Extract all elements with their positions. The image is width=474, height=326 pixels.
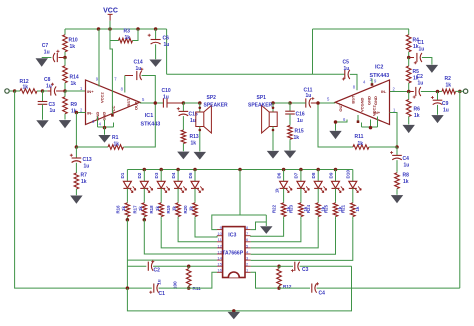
capacitor C2 top: [409, 91, 414, 93]
wire R18 to IC3 pin12: [161, 220, 217, 248]
capacitor C3: [42, 91, 44, 102]
svg-text:C7: C7: [42, 43, 49, 49]
svg-text:C4: C4: [319, 291, 326, 297]
svg-text:1k: 1k: [275, 188, 280, 193]
ground R8: [391, 195, 402, 202]
svg-text:VCGND: VCGND: [360, 97, 365, 112]
wire R11 to output riser: [318, 103, 352, 147]
LED D3: [160, 170, 162, 182]
svg-text:GND: GND: [102, 112, 107, 121]
svg-text:R3: R3: [124, 29, 131, 35]
resistor R1: [76, 146, 107, 148]
svg-text:D6: D6: [276, 172, 281, 178]
IC3 pin 4: [245, 253, 251, 255]
wire IC3 pin9 up: [212, 215, 266, 230]
wire IC1 gnd stem: [104, 127, 106, 135]
wire feedback vertical: [75, 113, 77, 148]
wire C3 to bottom loop: [300, 265, 352, 267]
speaker SP1: [272, 103, 274, 112]
svg-text:R6: R6: [414, 106, 421, 112]
node junction SP2 top: [198, 101, 202, 105]
wire rail to meter drop: [239, 170, 241, 216]
svg-text:R20: R20: [183, 205, 188, 214]
svg-text:SP2: SP2: [207, 95, 217, 101]
node junction rail pin9 tap: [97, 27, 101, 31]
svg-text:1k: 1k: [191, 141, 197, 147]
node junction rail meter tap: [238, 168, 242, 172]
wire IC2 pin9 stub: [371, 79, 373, 85]
wire VCC top rail right: [313, 28, 410, 30]
wire to speaker SP2: [183, 102, 199, 104]
svg-text:D10: D10: [346, 170, 351, 179]
wire C2 line left: [127, 265, 146, 267]
svg-text:1k: 1k: [23, 84, 29, 90]
svg-text:IN-: IN-: [381, 89, 387, 94]
resistor R14: [64, 58, 66, 66]
node junction output C14 R1: [154, 101, 158, 105]
wire R23 to IC3 pin6: [251, 220, 301, 242]
IC3 pin 15: [217, 265, 223, 267]
svg-text:1u: 1u: [163, 94, 169, 100]
node junction C15 tap: [182, 101, 186, 105]
svg-text:VCC2: VCC2: [99, 92, 104, 103]
svg-text:R23: R23: [289, 204, 294, 213]
wire R20 to IC3 pin10: [195, 220, 217, 237]
resistor R17: [143, 202, 145, 203]
resistor R12: [15, 90, 20, 92]
ground R6: [403, 125, 414, 132]
wire IC1 pin2 to feedback: [76, 112, 85, 114]
wire R25 to IC3 pin4: [251, 220, 336, 255]
svg-text:1k: 1k: [414, 113, 420, 119]
wire C2 to R11 pin15: [153, 265, 217, 267]
node junction C16 tap: [288, 101, 292, 105]
svg-text:1u: 1u: [157, 279, 162, 285]
node junction rail VCC tap: [108, 27, 112, 31]
svg-text:C10: C10: [162, 88, 171, 94]
svg-text:R13: R13: [190, 134, 199, 140]
svg-text:C5: C5: [343, 59, 350, 65]
ground R7: [71, 196, 82, 203]
svg-text:C8: C8: [44, 77, 51, 83]
wire pin14 line: [127, 259, 217, 261]
wire IC1 pin7 VCC: [110, 29, 112, 115]
resistor R12 bottom: [278, 266, 280, 268]
svg-text:1u: 1u: [44, 49, 50, 55]
ground R9: [59, 120, 70, 127]
resistor R24: [317, 202, 319, 203]
svg-text:STK443: STK443: [141, 122, 161, 128]
svg-text:IN-: IN-: [87, 111, 93, 116]
svg-text:VCC: VCC: [103, 8, 118, 15]
svg-text:D3: D3: [154, 172, 159, 178]
svg-text:1u: 1u: [419, 46, 425, 52]
svg-text:OUT: OUT: [338, 103, 343, 112]
wire R24 to IC3 pin5: [251, 220, 319, 248]
wire C3 to ground: [42, 104, 44, 120]
IC3 pin 11: [217, 241, 223, 243]
svg-text:D5: D5: [188, 172, 193, 178]
node junction output right: [458, 90, 462, 94]
svg-text:C2: C2: [417, 74, 424, 80]
op-amp IC1 STK443 body: [86, 80, 140, 125]
svg-text:14: 14: [217, 256, 222, 261]
svg-text:1k: 1k: [114, 141, 120, 147]
ground C9: [432, 115, 443, 122]
svg-text:D4: D4: [171, 172, 176, 178]
resistor R9: [64, 91, 66, 97]
wire C11 to C16 node: [290, 102, 306, 104]
svg-text:16: 16: [217, 268, 222, 273]
terminal output right: [463, 89, 467, 93]
terminal input left: [5, 89, 9, 93]
svg-text:STK443: STK443: [370, 73, 390, 79]
IC1 ground pins: [97, 117, 99, 128]
svg-text:C16: C16: [296, 112, 305, 118]
svg-text:R2: R2: [445, 76, 452, 82]
svg-text:R18: R18: [149, 205, 154, 214]
resistor R5: [408, 58, 410, 67]
node junction IN- feedback: [75, 111, 79, 115]
svg-text:C4: C4: [403, 156, 410, 162]
svg-text:R17: R17: [132, 205, 137, 214]
svg-text:IC1: IC1: [145, 113, 153, 119]
svg-text:1k: 1k: [155, 206, 160, 211]
node junction R17 bottom: [143, 218, 147, 222]
svg-text:OUT: OUT: [133, 101, 138, 110]
node junction R12 bottom: [277, 286, 281, 290]
wire IC2 pin7 stub: [357, 115, 359, 122]
ground SP1: [267, 151, 278, 158]
capacitor C13: [75, 147, 77, 158]
svg-text:1k: 1k: [355, 206, 360, 211]
svg-text:1k: 1k: [71, 81, 77, 87]
resistor R19: [177, 202, 179, 203]
wire rail drop to cross wire: [166, 29, 168, 74]
svg-text:D9: D9: [328, 172, 333, 178]
wire to C3: [279, 265, 293, 267]
node junction output feedback right: [316, 101, 320, 105]
svg-text:C1: C1: [418, 40, 425, 46]
svg-text:C9: C9: [442, 101, 449, 107]
svg-text:10: 10: [217, 231, 222, 236]
wire LED supply rail: [127, 169, 352, 171]
node junction R14 R9 IN+: [63, 89, 67, 93]
LED D7: [300, 170, 302, 182]
svg-text:GND: GND: [367, 96, 372, 105]
IC3 pin 2: [245, 265, 251, 267]
resistor R15: [289, 114, 291, 124]
wire R2 to terminal: [457, 90, 464, 92]
svg-text:SPEAKER: SPEAKER: [248, 103, 273, 109]
resistor R23: [300, 202, 302, 203]
svg-text:1u: 1u: [164, 42, 170, 48]
wire pin2 line right: [251, 265, 277, 267]
IC3 pin 7: [245, 235, 251, 237]
IC3 pin 14: [217, 259, 223, 261]
node junction LED rail: [334, 168, 338, 172]
resistor R16: [126, 202, 128, 203]
op-amp IC2 STK443 body: [335, 80, 389, 125]
resistor R18: [160, 202, 162, 203]
ground IC2: [330, 131, 341, 138]
svg-text:1k: 1k: [189, 206, 194, 211]
resistor R11 bottom: [188, 266, 190, 268]
wire SP1 node: [273, 102, 290, 104]
svg-text:1k: 1k: [358, 141, 364, 147]
svg-text:1u: 1u: [418, 80, 424, 86]
IC3 TA7666P body: [223, 227, 245, 278]
wire C14 to output node: [142, 76, 156, 104]
node junction C1 line col: [126, 286, 129, 290]
resistor R13: [182, 116, 184, 129]
svg-text:R19: R19: [166, 205, 171, 214]
svg-text:R14: R14: [70, 75, 79, 81]
svg-text:R25: R25: [323, 204, 328, 213]
wire C10 to SP2 node: [167, 102, 183, 104]
node junction LED rail: [282, 168, 286, 172]
wire cross interconnect: [167, 73, 345, 75]
node junction R16 bottom: [126, 218, 129, 222]
ground IC1: [99, 135, 110, 142]
svg-text:1k: 1k: [121, 206, 126, 211]
svg-text:SP1: SP1: [257, 95, 267, 101]
svg-text:R7: R7: [81, 172, 88, 178]
node junction rail R3 tap: [136, 27, 140, 31]
svg-text:C3: C3: [302, 267, 309, 273]
svg-text:IC3: IC3: [228, 233, 236, 239]
wire R21 to IC3 pin3: [251, 220, 353, 261]
wire IC1 pin9 VCC2: [98, 29, 100, 87]
svg-text:R22: R22: [271, 204, 276, 213]
wire VCC top rail left: [65, 28, 167, 30]
ground bottom: [228, 312, 239, 319]
LED D8: [317, 170, 319, 182]
wire IC1 output: [140, 102, 164, 104]
node junction SP1 top: [271, 101, 275, 105]
node junction R1 C13: [75, 145, 79, 149]
svg-text:R16: R16: [115, 205, 120, 214]
wire C5 to IC2 pin8: [350, 74, 357, 90]
svg-text:R24: R24: [306, 204, 311, 213]
svg-text:C3: C3: [49, 102, 56, 108]
wire C6 to ground: [155, 44, 157, 59]
node junction input: [13, 89, 17, 93]
resistor R2: [441, 90, 442, 92]
ground R13: [178, 152, 189, 159]
capacitor C14: [125, 75, 133, 77]
capacitor C10: [162, 98, 164, 107]
IC3 pin 8: [245, 229, 251, 231]
svg-text:1k: 1k: [294, 135, 300, 141]
capacitor C9: [437, 92, 439, 101]
LED D10: [352, 170, 354, 182]
resistor R4: [408, 29, 410, 35]
svg-text:R9: R9: [71, 102, 78, 108]
IC3 pin 13: [217, 253, 223, 255]
wire SP2 to ground: [199, 127, 201, 152]
resistor R11 top: [370, 146, 397, 148]
svg-text:1u: 1u: [46, 83, 52, 89]
svg-text:1k: 1k: [172, 206, 177, 211]
svg-text:13: 13: [217, 249, 222, 254]
ground IC3 top: [261, 227, 272, 234]
svg-text:C6: C6: [163, 36, 170, 42]
node junction R11 top: [187, 264, 191, 268]
node junction LED rail: [143, 168, 147, 172]
node junction rail C6 tap: [154, 27, 158, 31]
wire C2 to R2: [421, 91, 441, 93]
node junction LED rail: [193, 168, 197, 172]
resistor R20: [194, 202, 196, 203]
svg-text:1k: 1k: [138, 206, 143, 211]
svg-text:15: 15: [217, 262, 222, 267]
svg-text:R11: R11: [355, 134, 364, 140]
wire IN+ to IC1: [65, 90, 86, 92]
node junction IC1 gnd: [103, 126, 107, 130]
capacitor C7: [59, 57, 66, 59]
svg-text:1u: 1u: [297, 118, 303, 124]
wire C4 to right riser: [317, 287, 460, 289]
wire R16 down: [126, 220, 128, 288]
LED D4: [177, 170, 179, 182]
wire R8 to ground: [396, 190, 398, 195]
capacitor C1 top: [409, 57, 414, 59]
resistor R21: [352, 202, 354, 203]
wire C9 to ground: [437, 105, 439, 115]
svg-text:1u: 1u: [443, 107, 449, 113]
wire R12 to C4: [279, 287, 310, 289]
ground C7: [36, 59, 47, 67]
svg-text:R15: R15: [295, 128, 304, 134]
IC3 pin 9: [217, 229, 223, 231]
wire pin8 step: [251, 222, 267, 230]
capacitor C11: [305, 98, 307, 107]
LED D5: [194, 170, 196, 182]
resistor R22: [283, 202, 285, 203]
capacitor C4 bottom: [311, 284, 313, 293]
capacitor C16: [289, 103, 291, 111]
svg-text:IC2: IC2: [375, 65, 383, 71]
ground C3: [37, 121, 48, 128]
IC3 pin 10: [217, 235, 223, 237]
svg-text:1k: 1k: [446, 82, 452, 88]
IC3 pin 12: [217, 247, 223, 249]
resistor R3: [110, 29, 118, 41]
node junction R4 R5 C1: [407, 56, 411, 60]
wire IC2 IN- to node: [390, 91, 409, 93]
svg-text:1k: 1k: [403, 179, 409, 185]
svg-text:R8: R8: [403, 172, 410, 178]
wire C8 to IN+ node: [56, 90, 65, 92]
wire input stub: [9, 90, 15, 92]
resistor R8: [396, 160, 398, 172]
svg-text:1u: 1u: [50, 108, 56, 114]
wire IC2 gnd to arrow: [336, 120, 348, 131]
node junction C9 tap: [436, 90, 440, 94]
node junction R5 R6 C2: [407, 90, 411, 94]
resistor R25: [335, 202, 337, 203]
capacitor C2 bottom: [147, 262, 149, 271]
svg-text:TA7666P: TA7666P: [222, 250, 243, 256]
speaker SP2: [199, 103, 201, 112]
wire C14 to IC1 pin8: [124, 76, 126, 93]
wire C1 to pin16: [159, 272, 217, 288]
svg-text:VCC: VCC: [111, 105, 116, 114]
svg-text:1k: 1k: [81, 179, 87, 185]
node junction bottom ground: [232, 309, 236, 313]
capacitor C1 bottom: [153, 284, 155, 293]
svg-text:1k: 1k: [125, 35, 131, 41]
wire rail riser right: [312, 29, 314, 74]
capacitor C15: [182, 103, 184, 111]
LED D1: [126, 170, 128, 182]
svg-text:BST: BST: [126, 98, 131, 107]
IC3 pin 5: [245, 247, 251, 249]
node junction IC2 gnd: [369, 126, 373, 130]
wire VCC to rail: [109, 21, 111, 29]
wire input sense left: [15, 91, 152, 288]
node junction LED rail: [316, 168, 320, 172]
svg-text:IN+: IN+: [87, 89, 94, 94]
svg-text:1u: 1u: [306, 93, 312, 99]
node junction LED rail: [159, 168, 163, 172]
ground C6: [150, 60, 161, 67]
wire R17 to IC3 pin13: [144, 220, 217, 254]
wire R15 to ground: [289, 140, 291, 150]
svg-text:BST: BST: [350, 95, 355, 104]
IC3 pin 6: [245, 241, 251, 243]
svg-text:C14: C14: [134, 60, 143, 66]
wire R13 to ground: [182, 145, 184, 152]
LED D6: [283, 170, 285, 182]
svg-text:C13: C13: [83, 157, 92, 163]
wire right output to meter: [459, 91, 461, 288]
svg-text:R21: R21: [341, 204, 346, 213]
svg-text:1u: 1u: [344, 66, 350, 72]
node junction R12 top: [277, 265, 281, 269]
wire pin1 step: [216, 271, 218, 273]
ground R15: [284, 151, 295, 158]
node junction LED rail: [176, 168, 180, 172]
wire R19 to IC3 pin11: [178, 220, 217, 242]
wire bottom loop left: [127, 266, 351, 311]
node junction R12 C3 C8: [41, 89, 45, 93]
wire IC2 pin1 to feedback: [390, 113, 398, 148]
wire R1 to output: [124, 103, 155, 147]
svg-text:D1: D1: [120, 172, 125, 178]
resistor R6: [408, 92, 410, 100]
svg-text:R1: R1: [112, 135, 119, 141]
IC2 ground pins: [377, 117, 379, 128]
capacitor C5: [344, 73, 346, 75]
svg-text:GND: GND: [373, 96, 378, 105]
wire C7 to ground: [42, 57, 52, 59]
svg-text:C1: C1: [159, 291, 166, 297]
svg-text:1u: 1u: [136, 66, 142, 72]
LED D9: [335, 170, 337, 182]
resistor R7: [75, 163, 77, 172]
svg-text:1u: 1u: [404, 162, 410, 168]
capacitor C6: [155, 29, 157, 40]
node junction IC2 gnd corner: [334, 120, 338, 124]
resistor R10: [64, 29, 66, 35]
svg-text:SPEAKER: SPEAKER: [204, 103, 229, 109]
ground C1: [426, 65, 437, 72]
svg-text:D2: D2: [137, 172, 142, 178]
svg-text:R10: R10: [69, 38, 78, 44]
wire C1 to ground: [422, 58, 432, 65]
